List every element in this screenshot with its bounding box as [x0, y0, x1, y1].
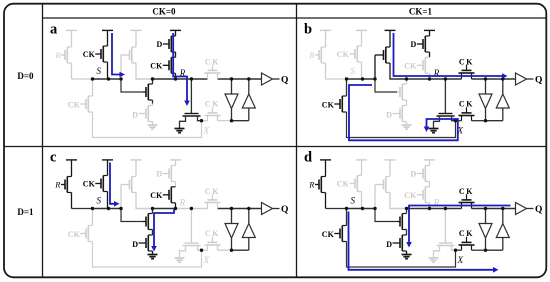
- NMOS M7 (S-driven): [143, 209, 153, 234]
- PMOS M1 (reset pull-up): [65, 30, 72, 79]
- PMOS M3 (node-S driven pull-up): [375, 160, 390, 209]
- NMOS M7 (S-driven): [397, 209, 407, 234]
- wire node X left: [202, 120, 208, 122]
- svg-text:S: S: [97, 196, 102, 206]
- NMOS M9 (R-driven pull-down): [434, 243, 456, 258]
- wire node R rail segment 4: [218, 208, 262, 210]
- wire M6 source to node X (bottom run): [347, 112, 456, 138]
- svg-text:Q: Q: [535, 75, 542, 85]
- junction dot keeper bottom: [484, 119, 487, 122]
- svg-text:R: R: [54, 180, 61, 190]
- keeper inverter I2 (up): [496, 79, 509, 121]
- PMOS M1 (reset pull-up): [319, 30, 326, 79]
- junction dot keeper bottom: [484, 249, 487, 252]
- NMOS M6 gate CK: [68, 230, 86, 239]
- keeper inverter I2 (up): [242, 209, 255, 251]
- PMOS M2 (CK pull-up): [101, 160, 108, 209]
- junction dots node S: [345, 77, 377, 80]
- table header divider: [43, 17, 547, 19]
- pass transistor M10 gate CK: [459, 187, 474, 196]
- PMOS M1 gate R: [308, 180, 319, 190]
- NMOS M6 (clock pull-down): [86, 226, 93, 242]
- VDD rail (M2): [102, 159, 113, 161]
- blue path: node R through M7/M8 to ground: [151, 210, 174, 252]
- output Q label: [535, 205, 542, 215]
- NMOS M6 gate CK: [322, 100, 340, 109]
- wire node R to M9 gate: [190, 209, 192, 244]
- VDD rail (M4/M5 stack): [170, 159, 181, 161]
- table row divider: [4, 146, 546, 148]
- wire node X left: [202, 249, 208, 251]
- blue path: VDD through M3 to node R and Q: [394, 33, 508, 79]
- pass transistor M10 (node R / keeper): [459, 194, 475, 208]
- output buffer U1: [516, 203, 534, 215]
- node X label: [203, 126, 210, 136]
- VDD rail (M3): [131, 29, 142, 31]
- junction dot node X: [200, 249, 203, 252]
- ground (M8 source): [148, 255, 158, 259]
- wire node X right: [472, 249, 486, 251]
- blue path: node S through M6 to node X and ground: [349, 85, 458, 140]
- PMOS M4 (data pull-up): [423, 160, 430, 187]
- table column divider: [42, 4, 44, 278]
- keeper inverter I1 (down): [479, 209, 492, 251]
- PMOS M1 (reset pull-up): [319, 160, 326, 209]
- PMOS M5 gate CK: [404, 191, 423, 200]
- wire M6 drain to node S: [346, 209, 348, 226]
- svg-text:R: R: [308, 50, 315, 60]
- wire node R rail segment 4: [472, 78, 516, 80]
- PMOS M2 gate CK: [83, 180, 101, 189]
- svg-text:CK=1: CK=1: [409, 7, 433, 17]
- pass transistor M11 gate CK: [205, 229, 220, 238]
- svg-text:d: d: [304, 150, 312, 166]
- svg-text:R: R: [308, 180, 315, 190]
- pass transistor M10 (node R / keeper): [205, 194, 221, 208]
- svg-text:D=1: D=1: [17, 207, 34, 217]
- svg-text:CK: CK: [68, 100, 81, 109]
- svg-text:CK: CK: [83, 180, 96, 189]
- PMOS M1 gate R: [308, 50, 319, 60]
- PMOS M1 gate R: [54, 50, 65, 60]
- pass transistor M10 (node R / keeper): [459, 65, 475, 79]
- wire node R rail segment 1: [389, 78, 406, 80]
- wire node R rail segment 2: [407, 208, 430, 210]
- svg-text:D: D: [132, 110, 138, 119]
- wire node R rail segment 4: [472, 208, 516, 210]
- VDD rail (M1): [66, 159, 77, 161]
- PMOS M4 gate D: [157, 170, 169, 179]
- node X label: [457, 126, 464, 136]
- ground (M8 source): [402, 125, 412, 129]
- output Q label: [281, 205, 288, 215]
- wire node R rail segment 3: [176, 208, 208, 210]
- wire node R to M9 gate: [444, 209, 446, 244]
- PMOS M3 (node-S driven pull-up): [375, 30, 390, 79]
- junction dot node X: [200, 119, 203, 122]
- svg-text:X: X: [203, 255, 210, 265]
- NMOS M9 (R-driven pull-down): [434, 114, 456, 129]
- junction dot keeper bottom: [230, 119, 233, 122]
- wire node R to M9 gate: [190, 79, 192, 114]
- PMOS M1 (reset pull-up): [65, 160, 72, 209]
- junction dots node S: [91, 77, 123, 80]
- VDD rail (M2): [356, 159, 367, 161]
- wire node S rail (left): [72, 208, 92, 210]
- svg-text:Q: Q: [535, 205, 542, 215]
- junction dot keeper bottom: [230, 249, 233, 252]
- blue path: keeper through M10 to node R and M7/M8 to ground: [406, 206, 510, 248]
- wire node S rail (left): [326, 78, 346, 80]
- svg-text:D=0: D=0: [17, 71, 34, 81]
- NMOS M8 (data pull-down): [400, 104, 407, 125]
- PMOS M5 gate CK: [150, 191, 169, 200]
- svg-text:CK: CK: [337, 50, 350, 59]
- output Q label: [535, 75, 542, 85]
- PMOS M1 gate R: [54, 180, 65, 190]
- junction dots node S: [91, 207, 123, 210]
- wire node R rail segment 2: [153, 208, 176, 210]
- pass transistor M11 (node X / keeper): [459, 237, 475, 251]
- NMOS M8 (data pull-down): [146, 104, 153, 125]
- NMOS M6 gate CK: [322, 230, 340, 239]
- wire M6 source to node X (bottom run): [93, 112, 202, 138]
- NMOS M6 (clock pull-down): [340, 226, 347, 242]
- svg-text:b: b: [304, 22, 312, 38]
- junction dot node X: [454, 249, 457, 252]
- pass transistor M10 gate CK: [205, 57, 220, 66]
- VDD rail (M1): [320, 29, 331, 31]
- PMOS M2 (CK pull-up): [101, 30, 108, 79]
- NMOS M8 gate D: [386, 110, 400, 119]
- svg-text:R: R: [54, 50, 61, 60]
- PMOS M3 (node-S driven pull-up): [121, 30, 136, 79]
- VDD rail (M3): [131, 159, 142, 161]
- pass transistor M10 gate CK: [459, 57, 474, 66]
- wire node R rail segment 4: [218, 78, 262, 80]
- pass transistor M11 gate CK: [205, 100, 220, 109]
- NMOS M6 gate CK: [68, 100, 86, 109]
- wire node R rail segment 1: [135, 78, 152, 80]
- wire node S to M7 gate: [375, 209, 397, 222]
- svg-text:CK: CK: [337, 180, 350, 189]
- junction dots node R: [151, 77, 251, 80]
- svg-text:CK: CK: [322, 230, 335, 239]
- wire M6 source to node X (bottom run): [347, 242, 456, 268]
- blue path: VDD through M2 to node S: [110, 163, 120, 207]
- keeper inverter I1 (down): [479, 79, 492, 121]
- svg-text:c: c: [50, 150, 57, 166]
- node R label: [433, 197, 440, 207]
- node X label: [457, 255, 464, 265]
- PMOS M4 (data pull-up): [169, 30, 176, 57]
- VDD rail (M4/M5 stack): [424, 159, 435, 161]
- wire node R rail segment 1: [135, 208, 152, 210]
- NMOS M8 (data pull-down): [400, 233, 407, 254]
- svg-text:CK: CK: [150, 191, 163, 200]
- blue path: VDD through M2 to node S: [112, 33, 125, 77]
- blue path: node S through M6 along node X line: [349, 212, 499, 273]
- svg-text:X: X: [457, 255, 464, 265]
- PMOS M5 (clock pull-up): [169, 187, 176, 209]
- wire node X right: [472, 120, 486, 122]
- junction dots node R: [405, 77, 505, 80]
- pass transistor M11 (node X / keeper): [205, 237, 221, 251]
- node R label: [179, 197, 186, 207]
- PMOS M3 (node-S driven pull-up): [121, 160, 136, 209]
- output buffer U1: [516, 73, 534, 85]
- wire node S to M7 gate: [121, 79, 143, 92]
- VDD rail (M2): [356, 29, 367, 31]
- ground (M8 source): [148, 125, 158, 129]
- keeper inverter I1 (down): [225, 79, 238, 121]
- VDD rail (M4/M5 stack): [424, 29, 435, 31]
- wire node R rail segment 2: [153, 78, 176, 80]
- wire node R rail segment 3: [176, 78, 208, 80]
- svg-text:CK: CK: [322, 100, 335, 109]
- svg-text:S: S: [97, 66, 102, 76]
- svg-text:CK: CK: [83, 50, 96, 59]
- PMOS M4 (data pull-up): [423, 30, 430, 57]
- svg-text:D: D: [132, 240, 138, 249]
- node X label: [203, 255, 210, 265]
- NMOS M6 (clock pull-down): [86, 96, 93, 112]
- wire keeper bottom: [486, 249, 503, 251]
- VDD rail (M2): [102, 29, 113, 31]
- VDD rail (M1): [320, 159, 331, 161]
- VDD rail (M3): [385, 159, 396, 161]
- NMOS M8 gate D: [132, 240, 146, 249]
- ground (M8 source): [402, 255, 412, 259]
- svg-text:S: S: [351, 66, 356, 76]
- svg-text:X: X: [203, 126, 210, 136]
- wire keeper bottom: [232, 249, 249, 251]
- panel label a: [50, 22, 58, 38]
- VDD rail (M4/M5 stack): [170, 29, 181, 31]
- ground (M9 source): [175, 129, 185, 133]
- node S label: [97, 196, 102, 206]
- PMOS M2 gate CK: [337, 50, 355, 59]
- svg-text:D: D: [411, 170, 417, 179]
- PMOS M5 gate CK: [150, 61, 169, 70]
- ground (M9 source): [429, 129, 439, 133]
- PMOS M2 (CK pull-up): [355, 30, 362, 79]
- wire node S rail: [345, 208, 376, 210]
- svg-text:Q: Q: [281, 75, 288, 85]
- wire M6 drain to node S: [92, 79, 94, 96]
- PMOS M2 (CK pull-up): [355, 160, 362, 209]
- svg-text:D: D: [411, 40, 417, 49]
- svg-text:CK: CK: [150, 61, 163, 70]
- wire node S rail (left): [72, 78, 92, 80]
- svg-text:R: R: [179, 197, 186, 207]
- svg-text:a: a: [50, 22, 58, 38]
- svg-text:Q: Q: [281, 205, 288, 215]
- wire node S rail: [345, 78, 376, 80]
- PMOS M4 gate D: [411, 170, 423, 179]
- PMOS M5 (clock pull-up): [169, 57, 176, 79]
- svg-text:CK=0: CK=0: [152, 7, 176, 17]
- wire node S rail (left): [326, 208, 346, 210]
- wire node X right: [218, 249, 232, 251]
- wire node S to M7 gate: [375, 79, 397, 92]
- node S label: [351, 66, 356, 76]
- svg-text:CK: CK: [404, 61, 417, 70]
- keeper inverter I1 (down): [225, 209, 238, 251]
- pass transistor M10 gate CK: [205, 187, 220, 196]
- wire node R rail segment 3: [430, 208, 462, 210]
- wire node X left: [456, 249, 462, 251]
- PMOS M5 (clock pull-up): [423, 187, 430, 209]
- wire keeper bottom: [486, 120, 503, 122]
- pass transistor M11 (node X / keeper): [459, 107, 475, 121]
- NMOS M8 (data pull-down): [146, 233, 153, 254]
- node S label: [97, 66, 102, 76]
- VDD rail (M3): [385, 29, 396, 31]
- svg-text:CK: CK: [404, 191, 417, 200]
- svg-text:CK: CK: [68, 230, 81, 239]
- wire node S rail: [91, 208, 122, 210]
- junction dots node S: [345, 207, 377, 210]
- wire node R rail segment 3: [430, 78, 462, 80]
- svg-text:D: D: [157, 40, 163, 49]
- NMOS M9 (R-driven pull-down): [180, 114, 202, 129]
- keeper inverter I2 (up): [496, 209, 509, 251]
- pass transistor M10 (node R / keeper): [205, 65, 221, 79]
- node R label: [179, 68, 186, 78]
- wire node X right: [218, 120, 232, 122]
- PMOS M4 (data pull-up): [169, 160, 176, 187]
- node R label: [433, 68, 440, 78]
- wire node S to M7 gate: [121, 209, 143, 222]
- output buffer U1: [262, 203, 280, 215]
- panel label b: [304, 22, 312, 38]
- wire node R rail segment 1: [389, 208, 406, 210]
- junction dot node X: [454, 119, 457, 122]
- wire node R rail segment 2: [407, 78, 430, 80]
- svg-text:D: D: [386, 240, 392, 249]
- PMOS M5 gate CK: [404, 61, 423, 70]
- output buffer U1: [262, 73, 280, 85]
- svg-text:D: D: [386, 110, 392, 119]
- pass transistor M11 (node X / keeper): [205, 107, 221, 121]
- keeper inverter I2 (up): [242, 79, 255, 121]
- ground (M9 source): [429, 258, 439, 262]
- NMOS M7 (S-driven): [143, 79, 153, 104]
- node S label: [351, 196, 356, 206]
- NMOS M8 gate D: [386, 240, 400, 249]
- NMOS M6 (clock pull-down): [340, 96, 347, 112]
- pass transistor M11 gate CK: [459, 229, 474, 238]
- NMOS M7 (S-driven): [397, 79, 407, 104]
- svg-text:D: D: [157, 170, 163, 179]
- output Q label: [281, 75, 288, 85]
- svg-text:S: S: [351, 196, 356, 206]
- VDD rail (M1): [66, 29, 77, 31]
- NMOS M8 gate D: [132, 110, 146, 119]
- wire M6 drain to node S: [346, 79, 348, 96]
- table panel divider vertical: [296, 4, 298, 278]
- blue path: VDD through M4/M5 to node R and M9: [173, 33, 190, 106]
- wire node S rail: [91, 78, 122, 80]
- NMOS M9 (R-driven pull-down): [180, 243, 202, 258]
- pass transistor M11 gate CK: [459, 100, 474, 109]
- junction dots node R: [405, 207, 505, 210]
- junction dots node R: [151, 207, 251, 210]
- panel label c: [50, 150, 57, 166]
- PMOS M2 gate CK: [337, 180, 355, 189]
- wire keeper bottom: [232, 120, 249, 122]
- wire node R to M9 gate: [444, 79, 446, 114]
- PMOS M5 (clock pull-up): [423, 57, 430, 79]
- PMOS M4 gate D: [157, 40, 169, 49]
- wire node X left: [456, 120, 462, 122]
- PMOS M2 gate CK: [83, 50, 101, 59]
- PMOS M4 gate D: [411, 40, 423, 49]
- wire M6 drain to node S: [92, 209, 94, 226]
- wire M6 source to node X (bottom run): [93, 242, 202, 268]
- panel label d: [304, 150, 312, 166]
- ground (M9 source): [175, 258, 185, 262]
